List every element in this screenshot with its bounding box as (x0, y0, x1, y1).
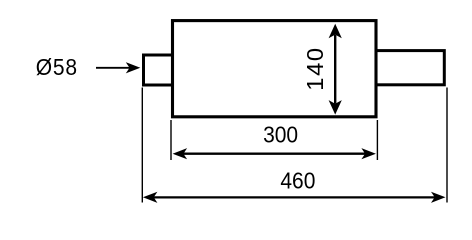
svg-text:140: 140 (303, 46, 329, 90)
dimension line 300 (182, 153, 367, 155)
inlet pipe (left stub) (144, 55, 173, 85)
svg-text:Ø58: Ø58 (36, 54, 78, 80)
arrowhead 460 left (143, 192, 158, 203)
arrowhead 300 left (173, 148, 188, 159)
arrowhead 300 right (361, 148, 376, 159)
outlet pipe (right stub) (376, 51, 445, 85)
extension line 460 right (446, 88, 448, 203)
arrowhead 140 top (329, 24, 342, 39)
svg-text:460: 460 (280, 168, 315, 194)
extension line 300 right (376, 120, 378, 160)
svg-text:300: 300 (263, 121, 298, 147)
muffler body (173, 21, 377, 117)
dimension line 140 (vertical) (334, 35, 336, 104)
dimension line 460 (153, 196, 436, 198)
arrowhead 140 bottom (329, 100, 342, 115)
extension line 300 left (170, 120, 172, 160)
arrowhead 460 right (431, 192, 446, 203)
leader arrow line (96, 67, 130, 69)
leader arrowhead (126, 62, 141, 73)
extension line 460 left (141, 88, 143, 203)
